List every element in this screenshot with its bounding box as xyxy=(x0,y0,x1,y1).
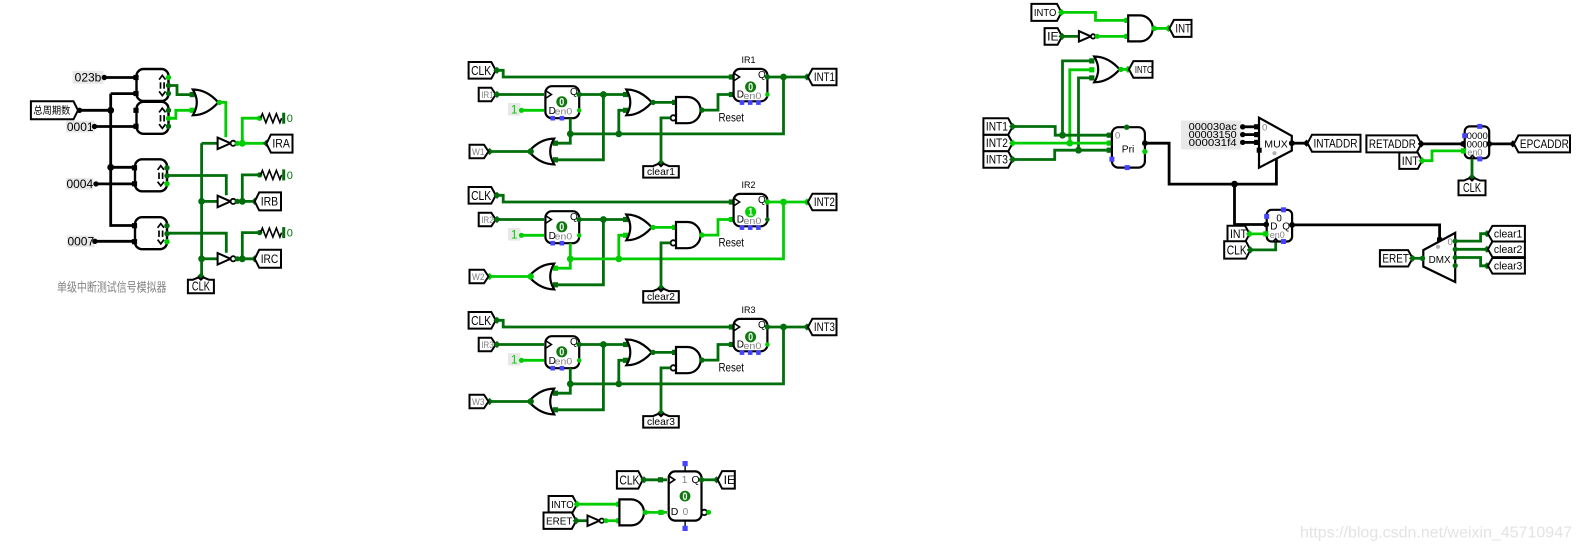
svg-text:Q: Q xyxy=(758,70,766,81)
wire clear3 to AND bubble xyxy=(661,368,670,413)
wire IE to NOT2 xyxy=(1062,35,1078,38)
node INT2 junction xyxy=(1066,140,1073,147)
wire CLK to DFF2 clock xyxy=(1250,243,1275,250)
pull resistor RC value 0 xyxy=(257,230,262,235)
node INT1 junction xyxy=(1059,132,1066,139)
svg-text:INTO: INTO xyxy=(1135,64,1153,76)
constant 1 block IR2 xyxy=(508,228,521,241)
wire NOT1 to AND4 xyxy=(606,519,619,522)
svg-text:IRB: IRB xyxy=(261,197,279,209)
wire AND to register D IR3 xyxy=(702,345,732,361)
svg-text:D: D xyxy=(671,506,679,518)
wire OR2 to AND IR1 xyxy=(653,101,675,104)
svg-text:clear2: clear2 xyxy=(1494,244,1523,256)
wire bus 0007 to CMP4 xyxy=(95,240,135,243)
wire latch Q to OR2 IR3 xyxy=(579,343,626,346)
constant 1 block IR3 xyxy=(508,353,521,366)
wire CLK to register IR1 clock xyxy=(497,70,732,77)
wire INT to DFF2 enable xyxy=(1250,232,1266,235)
wire CMP1 eq to OR1 input xyxy=(169,86,193,95)
not-gate NOT2 xyxy=(1079,31,1091,41)
svg-text:en0: en0 xyxy=(1270,230,1285,240)
node count junction 1 xyxy=(107,107,114,114)
svg-text:INTO: INTO xyxy=(551,499,574,511)
svg-text:INT: INT xyxy=(1230,229,1247,241)
svg-text:1: 1 xyxy=(511,104,517,116)
svg-text:CLK: CLK xyxy=(1227,243,1248,257)
wire OR4 to tunnel INTO xyxy=(1121,68,1127,71)
svg-text:Reset: Reset xyxy=(719,238,745,250)
tunnel INTO top xyxy=(1031,4,1061,21)
svg-text:INT3: INT3 xyxy=(814,322,835,334)
tunnel CLK block IR3 xyxy=(469,312,496,329)
tunnel IE output xyxy=(718,471,735,489)
wire constant 1 to latch D IR2 xyxy=(522,234,545,237)
or-gate OR2 IR3 xyxy=(626,340,652,366)
wire INT2 to OR4 xyxy=(1070,70,1092,143)
node DMX out3 unconnected xyxy=(1453,263,1458,268)
wire OR2 to AND IR2 xyxy=(653,226,675,229)
svg-text:CLK: CLK xyxy=(471,314,492,328)
tunnel INT DFF2 enable xyxy=(1228,226,1250,242)
svg-text:1: 1 xyxy=(511,354,517,366)
wire CMP4 eq to tri-state EN row C xyxy=(168,233,226,253)
tunnel CLK IE block xyxy=(617,471,643,489)
tunnel IRA xyxy=(266,135,292,153)
wire ERET to DMX xyxy=(1413,257,1423,260)
wire constant 1 to latch D IR3 xyxy=(522,359,545,362)
wire INT3 feedback net xyxy=(570,327,783,384)
svg-text:Q: Q xyxy=(692,474,700,486)
tunnel INT3 source xyxy=(983,151,1012,167)
svg-text:INT: INT xyxy=(1175,24,1191,36)
node feedback junction b IR3 xyxy=(567,381,574,388)
node count junction 2 xyxy=(107,164,114,171)
demultiplexer DMX xyxy=(1423,233,1455,282)
wire IR2 to latch clock xyxy=(497,218,544,221)
svg-text:INT2: INT2 xyxy=(986,138,1008,150)
wire PRI output bus to MUX select and DFF xyxy=(1145,143,1277,184)
tunnel INTADDR xyxy=(1308,135,1361,152)
wire IRC net xyxy=(237,257,254,260)
tunnel CLK EPC xyxy=(1468,174,1475,181)
wire IRB net xyxy=(237,200,254,203)
tunnel INT3 xyxy=(808,319,837,336)
svg-text:EPCADDR: EPCADDR xyxy=(1520,139,1569,151)
svg-text:Q: Q xyxy=(758,320,766,331)
svg-text:0001: 0001 xyxy=(67,120,94,134)
constant 1 block IR1 xyxy=(508,103,521,116)
register EPC xyxy=(1465,126,1490,158)
svg-text:en0: en0 xyxy=(743,341,761,352)
wire IE flip-flop Q to tunnel IE xyxy=(702,478,717,481)
svg-text:W2: W2 xyxy=(472,272,485,282)
svg-text:MUX: MUX xyxy=(1264,138,1288,150)
or-gate OR3 IR1 facing left xyxy=(529,139,555,165)
tunnel clear3 sink xyxy=(1488,258,1525,274)
tri-state inverter row C xyxy=(218,253,231,265)
tunnel INT enable EPC xyxy=(1399,153,1422,169)
svg-text:CLK: CLK xyxy=(619,473,640,487)
wire CLK distribution vertical xyxy=(200,143,203,275)
svg-text:CLK: CLK xyxy=(471,64,492,78)
wire AND to register D IR2 xyxy=(702,220,732,236)
tunnel clear1 xyxy=(657,159,664,166)
wire OR3 output to W3 xyxy=(490,400,529,403)
tunnel ERET DMX input xyxy=(1380,250,1413,266)
tunnel IRB xyxy=(255,192,281,210)
tunnel INT2 xyxy=(808,194,837,211)
or-gate OR3 IR2 facing left xyxy=(529,264,555,290)
svg-text:Pri: Pri xyxy=(1122,144,1135,155)
tunnel IRC xyxy=(255,250,281,268)
register IR3 xyxy=(734,319,768,351)
node feedback junction b IR2 xyxy=(567,256,574,263)
wire register Q to INT1 xyxy=(768,76,807,79)
svg-text:CLK: CLK xyxy=(471,189,492,203)
wire CLK to IE flip-flop clock xyxy=(644,478,667,481)
wire INT2 feedback net xyxy=(570,202,783,259)
svg-text:1: 1 xyxy=(511,229,517,241)
svg-text:0004: 0004 xyxy=(66,177,93,191)
node IRB junction xyxy=(239,198,246,205)
tunnel W2 xyxy=(470,270,489,284)
priority encoder PRI xyxy=(1112,127,1145,167)
svg-text:ERET: ERET xyxy=(1382,253,1409,265)
svg-text:IE: IE xyxy=(1047,30,1059,44)
register IR2 xyxy=(734,194,768,226)
and-gate AND1 with inverted clear input xyxy=(676,97,701,123)
svg-text:IR1: IR1 xyxy=(481,90,494,100)
svg-text:0: 0 xyxy=(287,228,293,240)
svg-text:W3: W3 xyxy=(472,397,485,407)
node latch Q junction IR1 xyxy=(600,91,607,98)
svg-text:0: 0 xyxy=(287,170,293,182)
wire INTO to AND5 xyxy=(1062,12,1127,20)
svg-text:IRA: IRA xyxy=(272,139,290,151)
tunnel CLK DFF2 xyxy=(1224,241,1250,258)
tunnel INT2 source xyxy=(983,135,1012,151)
tunnel IR2 xyxy=(479,213,496,227)
svg-text:ERET: ERET xyxy=(546,516,573,528)
wire OR3 output to W1 xyxy=(490,150,529,153)
wire CLK to register IR3 clock xyxy=(497,320,732,327)
flip-flop latch FF1A xyxy=(545,86,579,118)
wire DMX out1 to clear2 xyxy=(1453,247,1458,252)
wire latch Q down to OR3 IR1 xyxy=(555,95,604,160)
wire ERET to NOT1 xyxy=(576,519,587,522)
svg-text:IRC: IRC xyxy=(261,254,279,266)
wire MUX output to INTADDR xyxy=(1292,142,1307,145)
wire INT1 feedback net xyxy=(570,77,783,134)
comparator CMP4 xyxy=(135,217,167,249)
comparator CMP1 xyxy=(137,69,169,101)
node latch Q junction IR2 xyxy=(600,216,607,223)
svg-text:0: 0 xyxy=(287,113,293,125)
and-gate AND2 with inverted clear input xyxy=(676,222,701,248)
wire constant 1 to latch D IR1 xyxy=(522,109,545,112)
node IRC junction xyxy=(239,255,246,262)
svg-text:clear3: clear3 xyxy=(647,416,675,428)
svg-text:INT2: INT2 xyxy=(814,197,835,209)
wire latch Q down to OR3 IR2 xyxy=(555,220,604,285)
wire bus 023b to comparator CMP1 input A xyxy=(104,76,136,79)
register IR1 xyxy=(734,69,768,101)
wire IR3 to latch clock xyxy=(497,343,544,346)
svg-text:https://blog.csdn.net/weixin_4: https://blog.csdn.net/weixin_45710947 xyxy=(1300,525,1572,542)
flip-flop latch FF3A xyxy=(545,336,579,368)
wire INT3 to OR4 xyxy=(1079,78,1093,150)
svg-text:DMX: DMX xyxy=(1429,254,1451,266)
pull resistor RB value 0 xyxy=(257,172,262,177)
tunnel CLK left section xyxy=(197,273,204,280)
wire clear2 to AND bubble xyxy=(661,243,670,288)
wire CLK to register IR2 clock xyxy=(497,195,732,202)
constant 023b xyxy=(73,71,104,84)
wire INT to EPC enable xyxy=(1422,151,1463,161)
wire AND4 to IE flip-flop D xyxy=(645,511,667,514)
wire IRA net xyxy=(237,142,266,145)
svg-text:0: 0 xyxy=(683,507,689,518)
svg-text:en0: en0 xyxy=(1467,148,1482,158)
wire latch Q down to OR3 IR3 xyxy=(555,345,604,410)
wire OR1 output to tri-state EN row A xyxy=(220,102,226,137)
svg-text:单级中断测试信号模拟器: 单级中断测试信号模拟器 xyxy=(57,280,167,295)
wire DMX out0 to clear1 xyxy=(1453,239,1458,244)
svg-text:023b: 023b xyxy=(75,71,102,85)
wire CMP3 eq to tri-state EN row B xyxy=(168,176,226,196)
wire AND5 to tunnel INT xyxy=(1154,27,1167,30)
node feedback junction a IR1 xyxy=(615,131,622,138)
wire register Q to INT2 xyxy=(768,201,807,204)
and-gate AND4 xyxy=(619,499,644,525)
tunnel clear1 sink xyxy=(1488,226,1525,242)
tri-state inverter row B xyxy=(218,196,231,208)
wire constants to MUX xyxy=(1243,125,1258,128)
flip-flop latch FF2A xyxy=(545,211,579,243)
multiplexer MUX xyxy=(1259,118,1292,168)
comparator CMP3 xyxy=(135,159,167,191)
svg-text:RETADDR: RETADDR xyxy=(1369,139,1416,151)
svg-text:000031f4: 000031f4 xyxy=(1189,138,1238,149)
svg-text:en0: en0 xyxy=(743,216,761,227)
svg-text:0: 0 xyxy=(683,491,688,503)
tunnel INT1 xyxy=(808,69,837,86)
svg-text:IR2: IR2 xyxy=(481,215,494,225)
constant 000030ac xyxy=(1181,121,1241,150)
svg-text:INT3: INT3 xyxy=(986,155,1008,167)
wire latch Q to OR2 IR2 xyxy=(579,218,626,221)
svg-text:Reset: Reset xyxy=(719,363,745,375)
wire NOT2 to AND5 xyxy=(1097,35,1127,38)
flip-flop U-IE xyxy=(669,471,702,520)
svg-text:clear1: clear1 xyxy=(1494,229,1523,241)
node IRA junction xyxy=(239,140,246,147)
wire INT1 to priority encoder xyxy=(1013,127,1110,136)
or-gate OR1 xyxy=(193,90,219,116)
svg-text:Q: Q xyxy=(758,195,766,206)
node feedback junction a IR2 xyxy=(615,256,622,263)
svg-text:0: 0 xyxy=(1115,131,1120,142)
node PRI bus junction xyxy=(1231,181,1238,188)
svg-text:Q: Q xyxy=(570,337,578,348)
node feedback junction a IR3 xyxy=(615,381,622,388)
svg-text:IE: IE xyxy=(724,473,736,487)
tunnel RETADDR xyxy=(1366,135,1421,152)
svg-text:IR2: IR2 xyxy=(742,180,756,191)
tunnel ERET IE block xyxy=(544,513,577,529)
svg-text:clear1: clear1 xyxy=(647,166,675,178)
tunnel IE top xyxy=(1045,28,1063,45)
svg-text:CLK: CLK xyxy=(192,280,210,294)
tunnel W3 xyxy=(470,395,489,409)
or-gate OR2 IR1 xyxy=(626,90,652,116)
svg-text:1: 1 xyxy=(682,475,688,486)
svg-text:en0: en0 xyxy=(743,91,761,102)
svg-text:clear3: clear3 xyxy=(1494,261,1523,273)
wire DFF2 Q to DMX select xyxy=(1292,225,1440,240)
svg-text:CLK: CLK xyxy=(1463,181,1481,195)
wire IR1 to latch clock xyxy=(497,93,544,96)
tunnel EPCADDR xyxy=(1514,135,1570,152)
node CLK junction row C xyxy=(198,255,205,262)
wire CLK to EPC clock xyxy=(1471,159,1474,177)
tunnel clear2 xyxy=(657,284,664,291)
svg-text:0007: 0007 xyxy=(67,235,94,249)
node INT1 junction xyxy=(780,74,787,81)
wire latch Q to OR2 IR1 xyxy=(579,93,626,96)
tunnel IR1 xyxy=(479,88,496,102)
flip-flop DFF2 interrupt number xyxy=(1267,210,1292,242)
svg-text:INTADDR: INTADDR xyxy=(1314,138,1358,150)
tunnel INTO IE block xyxy=(549,496,578,512)
tunnel CLK block IR2 xyxy=(469,187,496,204)
wire OR3 output to W2 xyxy=(490,275,529,278)
and-gate AND5 xyxy=(1128,15,1153,41)
svg-text:W1: W1 xyxy=(472,147,485,157)
svg-text:Q: Q xyxy=(570,212,578,223)
svg-text:Reset: Reset xyxy=(719,113,745,125)
svg-text:Q: Q xyxy=(570,87,578,98)
node CLK junction row B xyxy=(198,198,205,205)
node INT3 junction xyxy=(1075,147,1082,154)
tunnel INT1 source xyxy=(983,118,1012,134)
node latch Q junction IR3 xyxy=(600,341,607,348)
wire bus 0004 to CMP3 xyxy=(96,182,135,185)
wire EPC register to EPCADDR xyxy=(1489,142,1512,145)
svg-text:INTO: INTO xyxy=(1034,7,1057,19)
tri-state inverter row A xyxy=(218,138,231,150)
tunnel clear3 xyxy=(657,409,664,416)
tunnel clear2 sink xyxy=(1488,242,1525,258)
svg-text:INT: INT xyxy=(1402,156,1419,168)
svg-text:0: 0 xyxy=(1262,122,1267,133)
tunnel INTO mid xyxy=(1129,61,1153,78)
wire AND to register D IR1 xyxy=(702,95,732,111)
constant 0004 xyxy=(66,178,94,190)
comparator CMP2 xyxy=(137,102,169,134)
node feedback junction b IR1 xyxy=(567,131,574,138)
constant 0001 xyxy=(66,121,95,133)
wire OR2 to AND IR3 xyxy=(653,351,675,354)
wire DMX out2 to clear3 xyxy=(1453,255,1458,260)
svg-text:0: 0 xyxy=(1448,237,1453,248)
pull resistor RA value 0 xyxy=(257,116,262,121)
wire register Q to INT3 xyxy=(768,326,807,329)
svg-text:INT1: INT1 xyxy=(814,72,835,84)
node INT3 junction xyxy=(780,324,787,331)
not-gate NOT1 xyxy=(588,516,600,527)
wire bus count net from tunnel 总周期数 xyxy=(78,109,111,112)
wire INTO to AND4 xyxy=(577,503,618,506)
or-gate OR3 IR3 facing left xyxy=(529,389,555,415)
or-gate OR2 IR2 xyxy=(626,215,652,241)
wire INT2 to priority encoder xyxy=(1013,142,1110,145)
wire bus 0001 to CMP2 xyxy=(95,125,137,128)
svg-text:IR3: IR3 xyxy=(742,305,756,316)
wire clear1 to AND bubble xyxy=(661,118,670,163)
wire CMP2 eq to OR1 input xyxy=(169,110,193,118)
constant 0007 xyxy=(67,236,95,248)
tunnel IR3 xyxy=(479,338,496,352)
and-gate AND3 with inverted clear input xyxy=(676,347,701,373)
svg-text:clear2: clear2 xyxy=(647,291,675,303)
svg-text:IR1: IR1 xyxy=(742,55,756,66)
svg-text:总周期数: 总周期数 xyxy=(33,104,70,117)
svg-text:IR3: IR3 xyxy=(481,340,494,350)
tunnel INT top xyxy=(1169,20,1191,37)
wire INT1 to OR4 xyxy=(1063,61,1093,135)
svg-text:INT1: INT1 xyxy=(986,122,1008,134)
wire INT3 to priority encoder xyxy=(1013,150,1110,159)
tunnel 总周期数 xyxy=(31,101,78,119)
tunnel W1 xyxy=(470,145,489,159)
wire RETADDR to EPC register xyxy=(1421,142,1463,145)
or-gate OR4 3-input xyxy=(1094,57,1120,83)
node INT2 junction xyxy=(780,199,787,206)
tunnel CLK block IR1 xyxy=(469,62,496,79)
